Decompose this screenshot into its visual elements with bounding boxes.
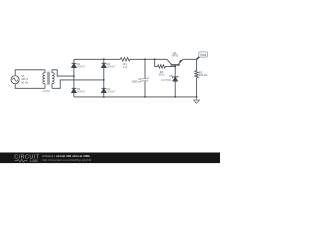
diode D4 [102, 88, 107, 92]
resistor R3 branch wires [196, 59, 198, 97]
wire bottom rail [74, 96, 197, 98]
svg-text:60 Hz: 60 Hz [21, 80, 29, 84]
svg-text:1000 µF: 1000 µF [132, 80, 142, 84]
zener diode D5 [172, 76, 178, 81]
transistor Q1 base bar [171, 64, 180, 66]
wire bridge left branch [73, 59, 75, 97]
capacitor C1 branch wires [144, 59, 146, 97]
resistor R2 branch wires [155, 59, 176, 66]
wire V1 bottom to transformer primary [15, 84, 45, 89]
node label Vout tag [197, 52, 208, 59]
svg-text:100 kΩ: 100 kΩ [199, 73, 208, 77]
svg-text:1N4007: 1N4007 [77, 91, 86, 94]
svg-text:+: + [148, 75, 150, 79]
node junction ground [196, 96, 198, 98]
voltage source V1 [11, 76, 19, 84]
svg-text:1N4738A: 1N4738A [161, 79, 172, 82]
wire top rail [74, 58, 121, 60]
resistor R2 [158, 65, 166, 68]
node junction bridge right bottom rail [103, 96, 105, 98]
ground [194, 97, 200, 103]
svg-text:1N4007: 1N4007 [77, 66, 86, 69]
zener D5 branch wire [174, 66, 176, 97]
resistor R3 [195, 71, 199, 78]
diode D3 [72, 88, 77, 92]
svg-text:http://circuitlab.com/c6kt85gc: http://circuitlab.com/c6kt85gcg3q58/ [42, 158, 91, 162]
wire V1 top to transformer primary [15, 70, 45, 75]
node junction R2 base zener [174, 66, 176, 68]
svg-text:LAB: LAB [30, 159, 38, 163]
transistor Q1 base stub [174, 65, 176, 66]
node junction R2 top [154, 58, 156, 60]
svg-text:39 Ω: 39 Ω [159, 73, 165, 77]
transistor Q1 emitter arrow [179, 60, 182, 63]
node junction zener bottom [174, 96, 176, 98]
capacitor C1 plates [142, 79, 149, 82]
wire bridge right branch [103, 59, 105, 97]
resistor R1 [120, 58, 129, 62]
node junction C1 bottom [144, 96, 146, 98]
svg-text:1N4007: 1N4007 [107, 91, 116, 94]
wire secondary bottom to bridge right node [52, 80, 104, 88]
node junction secondary bottom / bridge right [103, 79, 105, 81]
wire top rail R1 to C1 to R2 node to Q1 collector [130, 58, 167, 60]
wire emitter to Vout node [183, 58, 197, 60]
svg-text:1N4007: 1N4007 [107, 66, 116, 69]
svg-text:D5: D5 [169, 74, 173, 78]
transistor Q1 collector diagonal [167, 59, 172, 64]
diode D2 [102, 63, 107, 67]
transistor Q1 emitter diagonal [178, 59, 183, 64]
node junction C1 top [144, 58, 146, 60]
transformer XFMR1 secondary winding [52, 70, 54, 89]
svg-text:Vout: Vout [200, 53, 206, 57]
diode D1 [72, 63, 77, 67]
wire secondary top to bridge left node [52, 70, 74, 76]
watermark bar [0, 153, 220, 164]
node junction bridge right top rail [103, 58, 105, 60]
node junction secondary top / bridge left [73, 75, 75, 77]
transformer XFMR1 primary winding [43, 70, 45, 89]
svg-text:1 Ω: 1 Ω [123, 65, 127, 69]
transformer XFMR1 core [48, 72, 49, 85]
svg-text:XFMR1: XFMR1 [42, 90, 51, 93]
svg-text:TIP31: TIP31 [171, 54, 179, 58]
